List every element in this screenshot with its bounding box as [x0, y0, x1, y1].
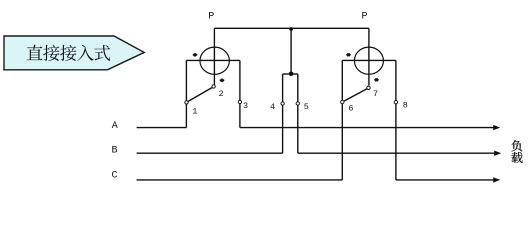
arrowhead phase B [494, 151, 501, 156]
terminal 8 [394, 101, 397, 104]
wire: link 1-2 diagonal [188, 88, 212, 102]
junction dot on P bus [289, 27, 293, 31]
svg-text:B: B [111, 145, 117, 156]
wire: element1 left vertical (terminal 1 lead) [185, 60, 187, 127]
wire: left element voltage drop from P bus [213, 28, 215, 85]
terminal 7 [367, 86, 370, 89]
svg-text:7: 7 [373, 89, 378, 99]
svg-text:4: 4 [270, 102, 275, 112]
svg-text:C: C [111, 171, 117, 182]
load label 负载 [511, 140, 522, 151]
wire: terminal 4 lead down to phase B [282, 74, 284, 153]
wire: middle voltage tap from P bus [290, 28, 292, 74]
wire: phase C load segment [396, 179, 495, 181]
terminal 3 [238, 100, 241, 103]
svg-text:1: 1 [192, 107, 197, 117]
wire: phase A source segment [137, 127, 187, 129]
polarity mark * at M2 coil [346, 53, 351, 56]
wire: element2 right vertical (terminal 8 lead) [395, 60, 397, 179]
terminal 1 [185, 101, 188, 104]
svg-text:3: 3 [243, 101, 248, 111]
wire: link 6-7 diagonal [344, 89, 367, 102]
wire: phase B load segment [298, 152, 496, 154]
wire: terminal 4-5 link bar [283, 73, 298, 75]
arrowhead phase A [493, 125, 500, 130]
svg-text:6: 6 [348, 104, 353, 114]
wire: phase B source segment [137, 152, 283, 154]
svg-text:5: 5 [304, 102, 309, 112]
meter element M2 (circle) [354, 47, 383, 74]
junction dot on 4-5 bar [289, 72, 294, 77]
wire: top pressure bus [214, 27, 369, 29]
arrowhead phase C [493, 177, 500, 182]
terminal 6 [341, 100, 344, 103]
polarity mark * at terminal 7 [374, 78, 379, 81]
svg-text:P: P [208, 11, 214, 22]
terminal 4 [281, 102, 284, 105]
wire: element2 current-coil shoulder [342, 59, 396, 61]
svg-text:A: A [112, 121, 118, 132]
callout text 直接接入式 [27, 45, 43, 60]
polarity mark * at terminal 2 [220, 79, 225, 82]
terminal 5 [296, 102, 299, 105]
polarity mark * at M1 coil [193, 53, 198, 56]
terminal 2 [212, 85, 215, 88]
wire: terminal 5 lead down to phase B [297, 74, 299, 153]
meter element M1 (circle) [200, 47, 229, 74]
callout banner 直接接入式 [4, 36, 144, 70]
svg-text:8: 8 [403, 101, 408, 111]
wire: element2 left vertical (terminal 6 lead) [341, 60, 343, 179]
svg-text:2: 2 [218, 89, 223, 99]
wire: phase A load segment [240, 127, 495, 129]
wire: right element voltage drop from P bus [368, 28, 370, 85]
wire: element1 right vertical (terminal 3 lead) [239, 60, 241, 127]
svg-text:P: P [361, 11, 367, 22]
wire: element1 current-coil shoulder [186, 59, 240, 61]
wire: phase C source segment [137, 179, 343, 181]
